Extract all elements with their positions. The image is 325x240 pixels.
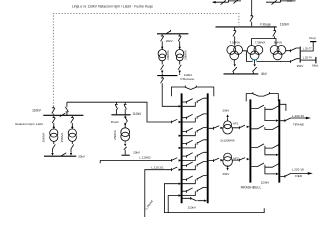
busbar F.Kuqe 110kV	[216, 26, 277, 28]
svg-text:L.220-18: L.220-18	[292, 167, 304, 171]
label 2x100MVA	[220, 139, 234, 143]
transformer T2 (3-winding)	[247, 46, 263, 60]
svg-text:L.110.2/1: L.110.2/1	[151, 165, 164, 169]
transformer TL1 (2-winding)	[50, 129, 58, 142]
svg-text:25MVA: 25MVA	[41, 133, 45, 143]
label 6kV	[261, 72, 267, 76]
label AF1	[233, 121, 239, 125]
label L.110.2/1	[151, 165, 164, 169]
wire: 20kV bus drop to G1 transformer with disconnector	[161, 34, 164, 49]
busbar 110kV switchyard bar 2	[207, 93, 209, 203]
svg-text:7.5MVA: 7.5MVA	[255, 40, 265, 44]
transformer TL2 (2-winding)	[68, 129, 76, 142]
label 110kV (P.Romano)	[184, 73, 192, 77]
wire: tie line drop 1 to Rrush bus	[115, 102, 118, 114]
label 25MVA (TL2, rotated)	[60, 133, 64, 143]
svg-text:110kV: 110kV	[188, 205, 196, 209]
svg-text:F.Kuqe: F.Kuqe	[260, 22, 271, 26]
svg-text:25MVA: 25MVA	[113, 130, 117, 140]
label RRASHBULL	[241, 186, 262, 190]
svg-text:6kV: 6kV	[261, 72, 267, 76]
label Rrush	[111, 120, 119, 124]
bay rung (L.110.2/1)	[179, 162, 207, 171]
label 20kV (Rrush terminal)	[133, 150, 140, 154]
wire: AF2 link to 220kV bar (switch + arrow)	[232, 158, 250, 162]
wire: AF1 link to 110kV bar (switch + arrow)	[209, 126, 224, 130]
transformer G1 (2-winding)	[158, 50, 166, 61]
label 110kV (Gjiri i Lalzit bus)	[32, 108, 42, 112]
label Milot	[312, 63, 318, 67]
wire: T1 secondary lead to 6kV bus (arrow + switch)	[233, 60, 237, 74]
autotransformer AF2	[223, 153, 233, 166]
label L.P6/44 (rotated)	[144, 199, 154, 210]
svg-text:RRASHBULL: RRASHBULL	[241, 186, 262, 190]
wire: line L.110/62	[100, 158, 177, 164]
transformer T3 (3-winding)	[270, 46, 286, 60]
wire: incoming line riser to F.Kuqe bus	[250, 0, 253, 26]
label L.220-18	[292, 167, 304, 171]
wire: Rrush secondary lead (arrow + switch) to 20kV terminal	[124, 141, 127, 155]
svg-text:L.110/62: L.110/62	[139, 156, 151, 160]
wire: 35kV feeder L.35-74 to Milot terminal	[301, 57, 316, 64]
svg-text:20kV: 20kV	[222, 109, 229, 113]
wire: T1 tertiary bend down to 35kV run	[243, 51, 247, 62]
bay rung 220kV 3	[251, 144, 279, 148]
wire: 20kV bus drop to G2 transformer with disconnector	[178, 34, 181, 49]
label L.220-15	[292, 114, 304, 118]
wire: bay 3 drop run	[265, 148, 279, 156]
svg-text:Linja e re 110kV Nstacioni Gji: Linja e re 110kV Nstacioni Gjiri i Lalzi…	[72, 4, 153, 8]
label 220kV	[261, 181, 270, 185]
dashed boundary of new 110kV line	[53, 13, 239, 106]
busbar P.Romano 110kV	[157, 75, 177, 77]
line stub to north B (truncated bay, top edge)	[266, 0, 296, 5]
transformer Rrush (2-winding)	[121, 128, 130, 141]
wire: AF1 tertiary stub (arrow up)	[226, 114, 228, 121]
bay rung 8	[179, 187, 207, 196]
wire: bay 7 loop around bottom	[164, 184, 264, 213]
wire: bay 4 drop to FIER exit	[265, 167, 279, 175]
svg-text:Milot: Milot	[312, 63, 318, 67]
transformer G2 (2-winding)	[176, 50, 184, 61]
busbar Rrush 110kV	[111, 114, 130, 116]
wire: stub bracket above TIRANE bay	[280, 104, 286, 111]
label 25MVA (TL1, rotated)	[41, 133, 45, 143]
bay rung 220kV 2 (AF bay)	[251, 125, 279, 129]
wire: TL2 lower lead with switch + arrow to 20kV bus	[70, 141, 74, 155]
label 110kV (Rrush)	[132, 112, 142, 116]
label 35kV	[297, 64, 304, 68]
wire: bus drop to TL1 with disconnector	[52, 116, 55, 129]
busbar 110kV switchyard bar 1	[181, 93, 183, 203]
svg-text:2x100MVA: 2x100MVA	[220, 139, 234, 143]
svg-text:20kV: 20kV	[133, 150, 140, 154]
wire: P.Romano feeder down to 110kV switchyard	[161, 76, 179, 106]
svg-text:110kV: 110kV	[32, 108, 42, 112]
wire: bus drop to transformer T1 with disconnector	[233, 27, 236, 46]
svg-text:7.5MVA: 7.5MVA	[229, 40, 239, 44]
switch on P.Romano 20kV bus	[165, 30, 171, 34]
switch on 20kV bus	[61, 153, 66, 156]
wire: line L.110.2/1 from south	[145, 167, 178, 217]
switch on Gjiri i Lalzit 110kV bus	[60, 113, 65, 116]
autotransformer AF1	[223, 121, 233, 134]
label P.Romano	[181, 77, 195, 81]
bay rung 4	[179, 140, 207, 149]
wire: T3 tertiary to 35kV bus with disconnector	[286, 48, 300, 52]
svg-text:20kV: 20kV	[166, 39, 173, 43]
label 20kV (AF1 tertiary)	[222, 109, 229, 113]
busbar P.Romano 20kV	[157, 33, 188, 35]
label 20kV (AF2 tertiary)	[222, 172, 229, 176]
svg-text:L.35-77: L.35-77	[303, 47, 312, 51]
svg-text:AF1: AF1	[233, 121, 239, 125]
svg-text:110kV: 110kV	[132, 112, 142, 116]
svg-text:20kV: 20kV	[222, 172, 229, 176]
wire: TL1 lower lead with switch + arrow to 20kV bus	[51, 141, 55, 155]
label L.35-77	[303, 47, 312, 51]
wire: G2 lower lead (switch + arrow) to P.Romano bus	[178, 61, 181, 75]
wire: line L.220-15 TIRANE (arrow)	[280, 117, 311, 122]
wire: T2 secondary lead to 6kV bus (arrow + switch)	[252, 60, 256, 74]
label L.110/62	[139, 156, 151, 160]
label AF2	[233, 157, 239, 161]
label 110kV (switchyard bottom)	[188, 205, 196, 209]
svg-text:L.P6/44: L.P6/44	[144, 199, 154, 210]
svg-text:L.220-15: L.220-15	[292, 114, 304, 118]
label 20kV (Gjiri i Lalzit)	[78, 155, 85, 159]
label FIER	[295, 174, 303, 178]
wire: dashed line drop to Gjiri i Lalzit bus with disconnector	[52, 107, 55, 115]
label Nstacioni Gjiri i Lalzit	[15, 122, 43, 126]
label 7.5MVA (T2)	[255, 40, 265, 44]
svg-text:20kV: 20kV	[78, 155, 85, 159]
crossover hop (cyan)	[253, 59, 257, 61]
svg-text:Nstacioni Gjiri i Lalzit: Nstacioni Gjiri i Lalzit	[15, 122, 43, 126]
busbar Gjiri i Lalzit 110kV	[43, 114, 83, 116]
110kV switchyard top coupler bracket	[171, 86, 213, 97]
wire: G1 lower lead (switch + arrow) to P.Romano bus	[161, 61, 164, 75]
label F.Kuqe	[260, 22, 271, 26]
svg-text:FIER: FIER	[295, 174, 303, 178]
wire: header feeding T2 and T3	[252, 39, 276, 46]
bay rung 7	[179, 176, 207, 185]
220kV switchyard top coupler bracket	[246, 92, 278, 101]
label 110kV (F.Kuqe bus)	[280, 22, 290, 26]
bay rung 3	[179, 128, 207, 137]
label 8MVA (T3)	[274, 40, 282, 44]
svg-text:220kV: 220kV	[261, 181, 270, 185]
svg-text:TIRANE: TIRANE	[293, 122, 304, 126]
wire: bay 8 loop join	[168, 196, 178, 213]
wire: bus drop to T2/T3 header with disconnector	[273, 27, 276, 39]
label 20kV (P.Romano)	[166, 39, 173, 43]
label TIRANE	[293, 122, 304, 126]
busbar 35kV (F.Kuqe)	[299, 47, 301, 63]
svg-text:110kV: 110kV	[280, 22, 290, 26]
busbar Gjiri i Lalzit 20kV	[44, 155, 76, 157]
bottom coupler rung 110kV yard	[183, 197, 207, 202]
bay rung (P.Romano infeed)	[179, 98, 207, 107]
terminal bar 20kV (Rrush)	[122, 154, 130, 156]
wire: Rrush bus drop to transformer with disconnector	[124, 116, 128, 128]
svg-text:Drejt: Drejt	[309, 36, 316, 40]
label Drejt	[309, 36, 316, 40]
svg-text:L.35-74: L.35-74	[303, 55, 312, 59]
title: new 110kV line label	[72, 4, 153, 8]
wire: riser from Gjiri i Lalzit bus to tie line (disconnector)	[65, 102, 68, 115]
busbar 220kV switchyard bar 2	[278, 99, 280, 182]
wire: tie line drop 2 to Rrush bus	[124, 102, 127, 114]
label 7.5MVA (T1)	[229, 40, 239, 44]
wire: line L.220-18 FIER (arrow)	[280, 172, 313, 178]
wire: 35kV feeder L.35-77 to terminal	[301, 42, 317, 51]
busbar F.Kuqe 6kV	[224, 73, 259, 75]
transformer T1 (3-winding)	[227, 46, 243, 60]
bay rung (L.110/62)	[179, 152, 207, 161]
svg-text:Rrush: Rrush	[111, 120, 119, 124]
svg-text:P.Romano: P.Romano	[181, 77, 195, 81]
wire: AF1 link to 220kV bar (switch + arrow)	[232, 125, 250, 129]
line stub to north A (truncated bay, top edge)	[212, 0, 241, 5]
bay rung (tie line infeed)	[179, 114, 207, 123]
label 20MVA (G2, rotated)	[184, 50, 188, 60]
busbar 220kV switchyard bar 1	[249, 99, 251, 182]
bay rung 220kV 4 (FIER bay)	[251, 163, 279, 167]
svg-text:25MVA: 25MVA	[60, 133, 64, 143]
wire: bay 1 drop to TIRANE exit	[265, 109, 279, 122]
bay rung 220kV 1 (TIRANE bay)	[251, 105, 279, 109]
svg-text:20MVA: 20MVA	[166, 50, 170, 60]
label 25MVA (Rrush, rotated)	[113, 130, 117, 140]
wire: 35kV run with crossover hop toward 35kV bus	[247, 59, 300, 63]
svg-text:8MVA: 8MVA	[274, 40, 282, 44]
svg-text:35kV: 35kV	[297, 64, 304, 68]
wire: bus drop to TL2 with disconnector	[71, 116, 74, 129]
label L.35-74	[303, 55, 312, 59]
label 20MVA (G1, rotated)	[166, 50, 170, 60]
wire: AF2 link to 110kV bar (switch + arrow)	[209, 158, 224, 162]
wire: 110kV tie line to Rrush and switchyard	[67, 102, 177, 123]
wire: AF2 tertiary stub (arrow down)	[226, 166, 228, 171]
svg-text:20MVA: 20MVA	[184, 50, 188, 60]
